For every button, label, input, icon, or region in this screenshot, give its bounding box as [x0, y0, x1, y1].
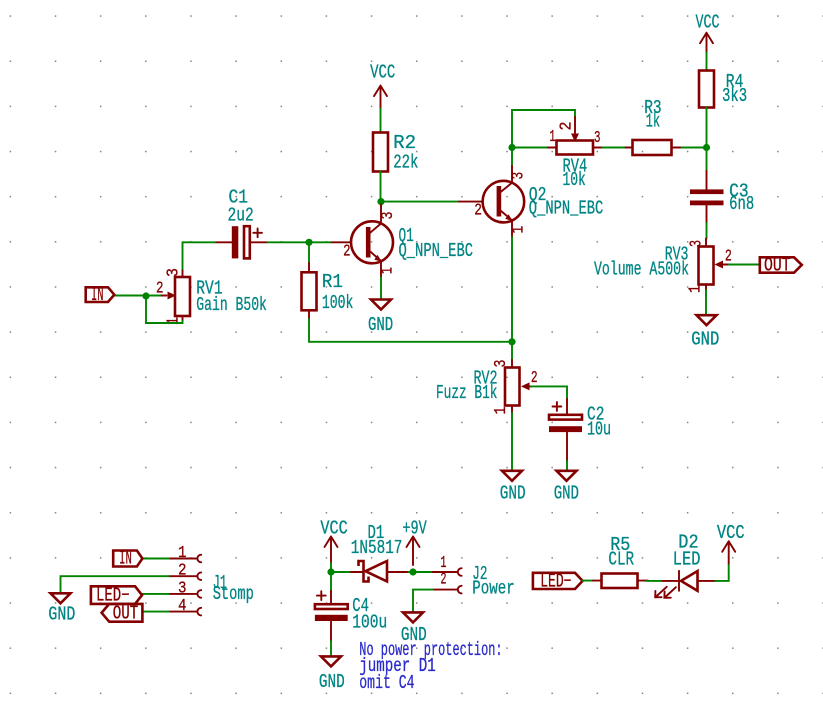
ground GND (C2) [554, 471, 579, 505]
wire D1 cathode to junction H [409, 571, 414, 573]
wire VCC to R2 [380, 109, 382, 133]
svg-text:1: 1 [550, 128, 556, 147]
svg-text:Q_NPN_EBC: Q_NPN_EBC [529, 198, 604, 220]
power symbol VCC (D1) [320, 517, 347, 563]
wire VCC to junction G [330, 563, 332, 572]
svg-text:LED: LED [673, 549, 701, 571]
svg-text:Gain B50k: Gain B50k [196, 294, 267, 316]
svg-text:omit C4: omit C4 [359, 672, 414, 694]
svg-text:1N5817: 1N5817 [351, 537, 403, 559]
wire D2 to VCC [715, 564, 728, 581]
svg-text:100k: 100k [322, 292, 354, 314]
wire R3 to junction [680, 147, 707, 149]
svg-text:2: 2 [558, 122, 577, 131]
svg-text:1: 1 [492, 407, 511, 415]
svg-text:VCC: VCC [696, 12, 720, 34]
svg-text:Volume A500k: Volume A500k [594, 259, 689, 281]
wire junction C to RV2 pin3 [511, 342, 513, 360]
svg-text:CLR: CLR [608, 549, 634, 571]
potentiometer RV2 [505, 360, 531, 413]
ground GND (RV3) [691, 315, 719, 350]
capacitor C4 [315, 591, 348, 641]
power symbol +9V [402, 517, 427, 565]
wire junction D to Q2 base [381, 201, 459, 203]
wire junction B down to Q2 collector [511, 148, 513, 167]
svg-text:10k: 10k [563, 169, 586, 191]
svg-text:Stomp: Stomp [213, 583, 254, 605]
wire VCC to R4 [706, 53, 708, 71]
svg-text:6n8: 6n8 [729, 193, 754, 215]
diode D1 (Schottky) [351, 561, 409, 582]
svg-text:3: 3 [688, 240, 707, 247]
svg-text:4: 4 [178, 597, 187, 616]
wire RV2 pin1 to GND [511, 413, 513, 471]
transistor Q2 [459, 166, 524, 237]
power symbol VCC (top right) [696, 12, 720, 53]
svg-text:GND: GND [319, 671, 345, 693]
svg-text:3: 3 [165, 268, 184, 277]
svg-text:2u2: 2u2 [228, 204, 254, 226]
wire junction F to RV1 wiper [146, 295, 160, 297]
power symbol VCC (R2) [370, 61, 395, 108]
svg-text:1: 1 [510, 226, 529, 234]
potentiometer RV3 [699, 239, 730, 291]
ground GND (J1) [48, 593, 75, 625]
junction Q2 emitter / RV2 node [508, 338, 515, 345]
wire J2 pin2 to GND [413, 590, 433, 613]
wire junction A to C3 [706, 148, 708, 172]
svg-text:100u: 100u [352, 612, 387, 634]
wire bottom rail [309, 341, 512, 343]
flag LED- (D2 section) [533, 571, 583, 593]
transistor Q1 [330, 205, 393, 278]
power symbol VCC (D2) [717, 522, 745, 564]
ground GND (RV2) [500, 471, 526, 505]
wire junction H to J2 pin1 [413, 571, 433, 573]
wire R1 to bottom rail [308, 319, 310, 342]
wire R4 to junction [706, 108, 708, 148]
wire LED- flag to J1 pin3 [142, 593, 169, 595]
svg-text:GND: GND [368, 314, 393, 336]
ground GND (C4) [319, 656, 345, 692]
svg-text:2: 2 [474, 202, 482, 221]
junction Q1 collector node [377, 198, 384, 205]
wire RV3 to GND [705, 290, 707, 315]
resistor R3 [624, 140, 680, 155]
flag OUT (J1) [102, 603, 143, 625]
wire Q2 emitter down to rail [511, 237, 513, 342]
wire OUT flag to J1 pin4 [142, 611, 169, 613]
svg-text:1k: 1k [646, 111, 661, 133]
svg-text:10u: 10u [587, 418, 611, 440]
wire RV2 wiper to C2 [531, 386, 567, 399]
svg-text:22k: 22k [393, 152, 418, 174]
wire junction E to Q1 base [309, 241, 330, 243]
ground GND (J2) [401, 612, 427, 645]
flag OUT (top right) [760, 255, 802, 277]
svg-text:3: 3 [492, 360, 511, 368]
svg-text:OUT: OUT [113, 603, 139, 625]
wire junction E down to R1 [308, 242, 310, 263]
potentiometer RV1 [160, 271, 190, 322]
flag IN (J1) [113, 547, 142, 569]
svg-text:GND: GND [48, 604, 75, 626]
svg-text:LED−: LED− [540, 571, 571, 593]
wire J1 pin2 to GND [61, 576, 169, 593]
connector J1 [169, 555, 201, 616]
svg-text:3: 3 [379, 212, 398, 220]
svg-text:VCC: VCC [370, 61, 395, 83]
svg-text:R1: R1 [322, 271, 343, 293]
svg-text:1: 1 [379, 267, 398, 274]
svg-text:GND: GND [691, 329, 719, 351]
connector J2 [433, 568, 462, 593]
junction +9V/D1/J2 [409, 568, 416, 575]
flag LED- (J1) [91, 585, 142, 607]
svg-text:VCC: VCC [320, 517, 347, 539]
wire C4 to GND [330, 641, 332, 656]
resistor R2 [373, 133, 388, 172]
wire junction G to C4 [330, 572, 332, 591]
wire C1 to junction E [268, 241, 310, 243]
svg-text:1: 1 [178, 544, 187, 563]
wire IN flag to junction F [114, 295, 146, 297]
svg-text:GND: GND [500, 482, 526, 504]
svg-text:Fuzz B1k: Fuzz B1k [436, 382, 498, 404]
wire junction D to Q1 collector [380, 202, 382, 206]
wire C3 to RV3 [706, 223, 708, 239]
wire C2 to GND [566, 461, 568, 471]
svg-text:2: 2 [531, 369, 538, 388]
svg-text:+9V: +9V [402, 517, 427, 539]
ground GND (Q1) [368, 300, 393, 337]
wire junction B to RV4 pin1 [512, 147, 548, 149]
junction VCC/D1/C4 [327, 568, 334, 575]
wire junction B up to RV4 wiper [512, 110, 575, 148]
svg-text:3k3: 3k3 [722, 85, 747, 107]
svg-text:1: 1 [687, 285, 706, 293]
junction Q1 base node [305, 239, 312, 246]
svg-text:GND: GND [554, 482, 579, 504]
svg-text:2: 2 [440, 571, 446, 590]
wire RV3 wiper to OUT flag [729, 264, 760, 266]
svg-text:Power: Power [472, 578, 515, 600]
junction RV4/Q2 collector node [508, 144, 515, 151]
wire RV1 pin1 loop [146, 296, 183, 323]
resistor R5 [593, 574, 648, 589]
junction R4/R3/C3 [703, 144, 710, 151]
wire C1 to RV1 pin3 [183, 242, 216, 270]
wire RV4 pin3 to R3 [601, 147, 624, 149]
svg-text:3: 3 [510, 172, 529, 180]
capacitor C1 [215, 226, 268, 258]
potentiometer RV4 [548, 117, 601, 155]
wire junction G to D1 anode [331, 571, 351, 573]
svg-text:Q_NPN_EBC: Q_NPN_EBC [399, 240, 474, 262]
junction RV1 wiper node [142, 292, 149, 299]
svg-text:IN: IN [91, 284, 104, 306]
wire LED- flag to R5 [583, 580, 593, 582]
resistor R1 [302, 263, 317, 319]
svg-text:OUT: OUT [764, 255, 791, 277]
resistor R4 [699, 71, 714, 108]
capacitor C3 [690, 171, 724, 223]
wire R2 to junction D [380, 172, 382, 202]
wire R5 to D2 [647, 580, 663, 582]
svg-text:3: 3 [594, 129, 601, 148]
LED D2 [655, 571, 715, 598]
flag IN (RV1) [86, 284, 115, 306]
wire IN flag to J1 pin1 [142, 558, 169, 560]
svg-text:2: 2 [178, 562, 187, 581]
capacitor C2 [549, 399, 582, 461]
wire Q1 emitter to GND [380, 278, 382, 300]
svg-text:3: 3 [178, 579, 187, 598]
svg-text:IN: IN [119, 547, 132, 569]
svg-text:2: 2 [343, 243, 350, 262]
svg-text:VCC: VCC [717, 522, 745, 544]
